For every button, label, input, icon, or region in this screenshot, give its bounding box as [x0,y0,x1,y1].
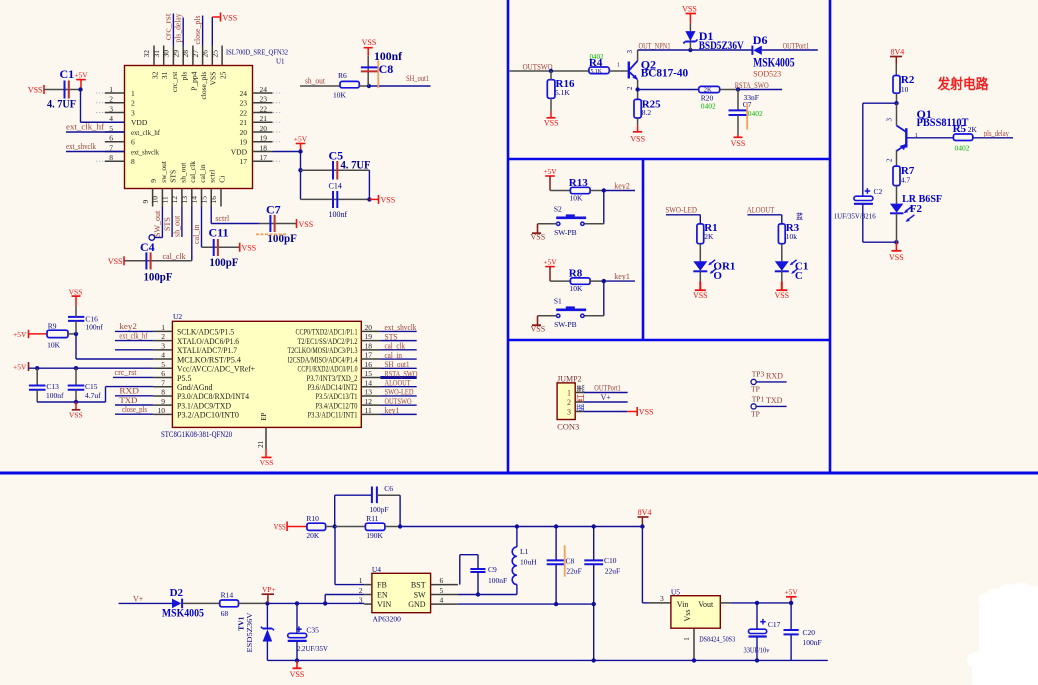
U4 pin 6 BST [431,584,458,586]
svg-text:10: 10 [158,406,166,415]
U2 pin 11 [361,413,380,415]
wire cal_in from pin14 [201,207,203,248]
capacitor C35 2.2UF/35V polarized [296,603,298,633]
wire C5 to right branch [368,170,370,199]
svg-text:C17: C17 [768,620,781,629]
U1 pin 23 [253,102,273,104]
svg-text:0402: 0402 [748,109,763,118]
wire R10 to junction [326,526,335,528]
svg-text:25: 25 [210,50,219,58]
wire R13 to junction [590,190,604,192]
svg-text:cal_in: cal_in [192,224,201,244]
wire VSS to R10 [287,526,307,528]
svg-text:STC8G1K08-381-QFN20: STC8G1K08-381-QFN20 [161,430,232,439]
U2 pin 15 [361,377,380,379]
svg-text:U1: U1 [276,58,285,66]
svg-text:1UF/35V/3216: 1UF/35V/3216 [834,212,876,221]
LED OR1 [693,261,707,271]
U1 pin 13 [191,189,193,207]
wire junction to R11 [335,526,366,528]
svg-text:2: 2 [109,95,113,104]
U1 pin 6 [105,141,125,143]
U5 pin2 wire [720,602,731,604]
svg-text:CCP1/RXD2/ADC0/P1.0: CCP1/RXD2/ADC0/P1.0 [298,365,358,374]
junction C20 [789,601,793,605]
U5 pin1 to ground rail [693,628,695,660]
svg-text:18: 18 [260,143,268,152]
svg-text:AP63200: AP63200 [373,615,402,624]
svg-text:TXD: TXD [119,396,137,405]
U2 pin 9 [153,404,172,406]
svg-text:TP: TP [751,409,760,418]
svg-text:SCLK/ADC5/P1.5: SCLK/ADC5/P1.5 [177,328,234,337]
U1 pin 22 [253,112,273,114]
U1 pin 32 [153,46,155,66]
LED C1 [775,261,789,271]
svg-text:VSS: VSS [242,244,257,253]
wire V+ to D2 [119,602,172,604]
U2 pin 20 [361,330,380,332]
section divider horizontal mid [508,339,830,342]
svg-text:P3.5/ADC13/T1: P3.5/ADC13/T1 [316,392,358,401]
svg-text:10K: 10K [570,193,584,202]
junction C35 [295,601,299,605]
wire net OUTSWO [380,404,416,406]
svg-text:TXD: TXD [766,396,783,405]
wire R6 to junction [359,85,369,87]
svg-text:VSS: VSS [69,287,83,296]
U2 pin 16 [361,367,380,369]
power VSS right of C14 [369,198,378,200]
svg-text:4.7uf: 4.7uf [85,391,101,400]
svg-text:sh_out: sh_out [305,76,326,85]
svg-text:CCP0/TXD2/ADC1/P1.1: CCP0/TXD2/ADC1/P1.1 [296,328,358,337]
svg-text:Vin: Vin [677,600,689,609]
svg-text:ext_clk_hf: ext_clk_hf [131,128,160,137]
wire ALOOUT to resistor [747,214,781,216]
wire to net key1 [604,280,635,282]
wire junction down to cap [737,90,739,111]
svg-text:CON3: CON3 [557,421,579,431]
svg-text:3: 3 [660,594,664,603]
svg-text:10K: 10K [333,91,347,100]
svg-text:29: 29 [171,50,180,58]
resistor R6 10K [340,81,359,87]
svg-text:VSS: VSS [774,291,789,300]
svg-text:U2: U2 [173,312,182,321]
svg-text:T2/EC1/SS/ADC2/P1.2: T2/EC1/SS/ADC2/P1.2 [298,337,358,346]
wire VSS to C8 [367,56,369,86]
svg-text:20K: 20K [306,531,320,540]
junction C13 [35,366,39,370]
svg-text:R6: R6 [338,71,347,80]
svg-text:close_pls: close_pls [122,405,147,414]
svg-text:TP1: TP1 [752,394,765,403]
svg-text:3: 3 [109,104,113,113]
wire net cal_clk [380,349,416,351]
svg-text:VSS: VSS [889,253,904,262]
svg-text:F2: F2 [910,203,923,215]
junction C17 [755,601,759,605]
junction C5/C14/VSS [367,197,371,201]
svg-text:P3.3/ADC11/INT1: P3.3/ADC11/INT1 [308,411,358,420]
svg-text:4.7: 4.7 [901,176,911,185]
wire D2 to R14 [182,602,220,604]
svg-text:STS: STS [385,332,398,341]
wire +5V to U2 pin5 Vcc [29,367,154,369]
wire net STS [380,340,416,342]
wire to C5 [301,169,370,171]
svg-text:TP: TP [751,385,760,394]
power +5V at C5 [296,143,306,145]
wire GND row [458,603,594,605]
power VSS right of C7 [296,219,298,228]
wire rail down to U5 Vin [641,527,643,603]
orange marker at C8 22uF [564,545,566,576]
svg-text:3: 3 [359,596,363,605]
svg-text:24: 24 [260,85,268,94]
U4 pin 1 FB [364,584,372,586]
svg-text:sw_out: sw_out [159,160,168,183]
svg-text:S1: S1 [554,297,562,306]
power VSS below C15 [75,402,77,410]
svg-text:C15: C15 [85,382,98,391]
wire junction down to S1 [603,281,605,316]
wire to C14 [301,198,370,200]
wire pin26 to VSS [211,17,213,46]
svg-text:R10: R10 [306,514,319,523]
svg-text:18: 18 [365,341,373,350]
svg-text:pls_delay: pls_delay [174,14,183,43]
wire to net key2 [604,190,635,192]
wire SWO-LED to resistor [666,214,700,216]
svg-text:ISL700D_SRE_QFN32: ISL700D_SRE_QFN32 [226,49,288,57]
svg-text:MSK4005: MSK4005 [162,606,204,620]
svg-text:8V4: 8V4 [891,47,905,56]
svg-text:MCLKO/RST/P5.4: MCLKO/RST/P5.4 [177,355,241,364]
U2 pin 10 [153,413,172,415]
svg-text:SH_out1: SH_out1 [406,74,429,83]
svg-text:25: 25 [219,71,228,79]
svg-text:22: 22 [260,104,268,113]
svg-text:2: 2 [885,158,893,162]
wire C6 loop [334,495,336,526]
U1 pin 24 [253,92,273,94]
U2 pin 18 [361,349,380,351]
wire RSTA_SWO right [738,89,782,91]
U4 pin 2 EN [364,594,372,596]
resistor R2 10 [893,76,900,94]
resistor R10 20K [307,523,326,530]
power VSS below LED C1 [776,289,787,291]
wire Q1 collector [896,103,898,125]
wire 8V4 to R2 [895,64,897,76]
svg-text:P3.0/ADC8/RXD/INT4: P3.0/ADC8/RXD/INT4 [177,392,249,401]
svg-text:8: 8 [161,388,165,397]
svg-text:2: 2 [567,398,571,407]
svg-text:VSS: VSS [274,522,286,531]
U1 pin 21 [253,121,273,123]
U1 pin 3 [105,112,125,114]
wire cal_clk from pin13 [191,207,193,261]
wire BST loop [459,555,461,585]
svg-text:14: 14 [190,196,199,204]
svg-text:2: 2 [161,332,165,341]
wire 8V4 rail [400,526,642,528]
svg-text:1: 1 [567,389,571,398]
svg-text:O: O [713,270,722,282]
svg-text:crc_rst: crc_rst [170,71,179,92]
svg-text:ext_shvclk: ext_shvclk [66,142,96,151]
U2 pin 21 [265,427,267,449]
svg-text:C13: C13 [46,382,59,391]
svg-text:C10: C10 [604,556,617,565]
svg-text:5.1K: 5.1K [555,88,570,97]
svg-text:VSS: VSS [693,291,708,300]
svg-text:5: 5 [161,360,165,369]
svg-text:19: 19 [240,138,248,147]
svg-text:+5V: +5V [784,588,798,597]
svg-text:P3.2/ADC10/INT0: P3.2/ADC10/INT0 [177,411,239,420]
svg-text:GND: GND [408,600,426,609]
wire LED C1 to VSS [781,271,783,281]
capacitor C15 4.7uf [75,368,77,385]
wire to C11 [202,246,240,248]
svg-text:100nF: 100nF [488,576,507,585]
svg-text:2K: 2K [968,125,978,134]
svg-text:XTALI/ADC7/P1.7: XTALI/ADC7/P1.7 [177,346,237,355]
wire net key1 [380,413,416,415]
svg-text:key1: key1 [385,406,400,415]
wire +5V node down [300,152,302,200]
svg-text:P3.7/INT3/TXD_2: P3.7/INT3/TXD_2 [307,374,358,383]
svg-text:1: 1 [109,85,113,94]
svg-text:13: 13 [365,388,373,397]
U1 pin 8 [105,160,125,162]
wire C16 up to VSS [75,306,77,317]
svg-text:VSS: VSS [223,14,238,23]
U1 pin 2 [105,102,125,104]
wire net ext_shvclk [380,330,416,332]
svg-text:XTALO/ADC6/P1.6: XTALO/ADC6/P1.6 [177,337,239,346]
svg-text:1: 1 [682,637,691,641]
junction key1 [602,279,606,283]
wire +5V to R9 [29,333,48,335]
junction key2 [602,188,606,192]
svg-text:9: 9 [149,179,158,183]
junction OUTSWO/R16 [549,69,553,73]
switch S2 SW-PB [557,222,560,225]
svg-text:100nf: 100nf [85,323,103,332]
svg-text:10K: 10K [570,284,584,293]
wire R7 to LED F2 [896,186,898,204]
svg-text:6: 6 [161,369,165,378]
svg-text:V+: V+ [601,393,612,402]
junction R9/C16 [74,332,78,336]
junction RSTA_SWO [736,87,740,91]
wire rail riser to U2 pin7 Gnd [105,387,107,402]
svg-text:R11: R11 [366,514,378,523]
power VSS below R25 [633,131,642,133]
inductor L1 10uH [512,547,517,585]
svg-text:SH_out1: SH_out1 [385,360,410,369]
capacitor C2 1UF/35V polarized [865,190,871,192]
wire R20 to junction [720,89,738,91]
wire Q2 emitter down [637,80,639,100]
capacitor C7 100pF [260,223,296,225]
wire junction to SH_out1 [369,85,431,87]
wire R5 to pls_delay [973,137,1013,139]
node SW_out terminal circle [149,235,155,241]
power VSS below U2 [265,449,267,457]
svg-text:VSS: VSS [299,220,314,229]
junction R11 right [398,524,402,528]
diode D6 MSK4005 [751,46,753,55]
wire C16 to junction down to U2 pin4 [75,321,77,334]
svg-text:key1: key1 [614,272,630,281]
junction C10 gnd [592,602,596,606]
svg-text:10K: 10K [47,341,61,350]
wire junction down to TV1 [266,603,268,628]
svg-text:4: 4 [161,351,165,360]
svg-text:4. 7UF: 4. 7UF [341,158,371,172]
svg-text:100nf: 100nf [329,210,348,219]
wire JUMP2 pin2 V+ [584,401,628,403]
svg-text:SW-PB: SW-PB [554,228,577,237]
svg-text:cal_clk: cal_clk [163,252,186,261]
mcu U2 STC8G1K08-381-QFN20 body [172,321,361,427]
svg-text:RXD: RXD [119,387,139,396]
wire sh_out from pin12 [181,207,183,238]
svg-text:17: 17 [260,153,268,162]
svg-text:100pF: 100pF [144,270,173,284]
U1 pin 1 [105,92,125,94]
svg-text:15: 15 [365,369,373,378]
wire Q1 emitter to R7 [896,150,898,166]
svg-text:R2: R2 [901,74,915,86]
wire crc_rst to U2 pin6 [113,376,153,378]
svg-text:close_pls: close_pls [193,16,202,45]
svg-text:21: 21 [240,118,248,127]
svg-text:17: 17 [240,157,248,166]
svg-text:100pF: 100pF [369,505,388,514]
U1 pin 7 [105,151,125,153]
svg-text:EP: EP [260,413,268,421]
wire STS from pin11 [171,207,173,238]
wire close_pls pin27 [202,16,204,46]
svg-text:VSS: VSS [209,72,218,86]
svg-text:23: 23 [260,95,268,104]
junction rail/VSS [74,400,78,404]
svg-text:D2: D2 [170,587,184,599]
svg-text:23: 23 [240,99,248,108]
resistor R7 4.7 [893,166,900,186]
wire R8 to junction [590,280,604,282]
svg-text:+5V: +5V [13,330,27,339]
svg-text:VIN: VIN [377,600,391,609]
svg-text:C: C [795,270,803,282]
svg-text:R8: R8 [569,268,583,280]
junction D1 [688,48,692,52]
power VSS right of C11 [239,243,241,252]
svg-text:ext_shvclk: ext_shvclk [385,323,417,332]
svg-text:100pF: 100pF [209,255,238,269]
section divider vertical keys/led [642,159,645,340]
LED F2 LR B6SF [890,204,903,213]
svg-text:8: 8 [131,157,135,166]
wire key2 to U2 pin1 [115,330,153,332]
op-amp U1 ISL700D_SRE_QFN32 body [125,66,253,189]
resistor R3 10k [778,224,785,244]
wire net SH_out1 [380,367,416,369]
svg-text:发射电路: 发射电路 [937,76,990,93]
svg-text:SW_out: SW_out [153,210,162,237]
svg-text:10k: 10k [786,232,798,241]
svg-text:SWO-LED: SWO-LED [665,204,697,214]
svg-text:ALOOUT: ALOOUT [747,204,775,214]
svg-text:R13: R13 [569,177,588,189]
capacitor C13 100nf [36,368,38,385]
U2 pin 2 [153,340,172,342]
junction Q2 emitter [635,87,639,91]
U1 pin 5 [105,131,125,133]
junction C35 ground [295,658,299,662]
capacitor C20 100nF [790,603,792,630]
svg-text:FB: FB [377,581,387,590]
resistor R16 5.1K [547,80,555,99]
capacitor C16 100nf [68,316,84,318]
wire Q1 base to R5 [907,137,953,139]
decor white patch [967,582,1038,685]
wire Q2 collector up [637,50,639,61]
svg-text:P3.1/ADC9/TXD: P3.1/ADC9/TXD [177,401,231,410]
svg-text:Vss: Vss [683,609,692,621]
svg-text:8: 8 [109,153,113,162]
svg-text:3: 3 [161,341,165,350]
wire main to C35 junction [267,602,297,604]
svg-text:21: 21 [256,440,265,448]
wire sh_out to R6 [300,85,340,87]
wire C10 down to ground rail [593,604,595,660]
svg-text:28: 28 [181,50,190,58]
wire R16 to VSS [550,98,552,111]
U1 pin 11 [171,189,173,207]
svg-text:cal_clk: cal_clk [385,342,406,351]
wire F2 to junction [896,213,898,242]
svg-text:VSS: VSS [260,458,274,467]
svg-text:U5: U5 [671,587,680,596]
wire junction down to S2 [603,191,605,224]
svg-text:21: 21 [260,114,268,123]
svg-text:sh_out: sh_out [173,215,182,237]
svg-text:22uF: 22uF [605,567,620,576]
junction VP [265,601,269,605]
svg-text:C35: C35 [306,625,319,634]
wire VSS to D1 [689,23,691,31]
wire R25 to VSS [637,118,639,125]
svg-text:0402: 0402 [955,144,970,153]
svg-text:6: 6 [440,576,444,585]
svg-text:SW: SW [414,590,426,599]
svg-text:15: 15 [199,196,208,204]
junction C8 gnd [554,602,558,606]
svg-text:L1: L1 [520,547,529,556]
U2 pin 4 [153,358,172,360]
svg-text:VSS: VSS [362,38,377,47]
svg-text:SWO-LED: SWO-LED [385,388,414,397]
svg-text:sh_out: sh_out [178,162,187,183]
svg-text:JUMP2: JUMP2 [557,374,581,383]
